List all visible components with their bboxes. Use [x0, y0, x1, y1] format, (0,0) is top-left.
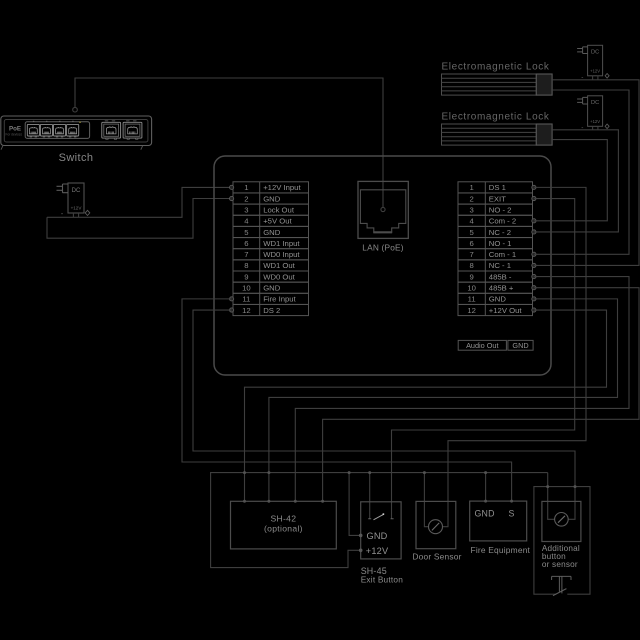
svg-text:S: S: [509, 509, 515, 519]
SH-42 box (optional): [231, 501, 337, 549]
additional sensor box: [542, 501, 581, 541]
svg-text:+12V: +12V: [366, 546, 389, 556]
wire DC+ to pin 2 (GND): [47, 199, 231, 239]
svg-text:Door Sensor: Door Sensor: [412, 551, 461, 561]
svg-text:GND: GND: [475, 509, 495, 519]
svg-text:or sensor: or sensor: [542, 560, 578, 569]
additional button blade: [553, 589, 566, 596]
svg-text:9: 9: [470, 272, 474, 281]
terminal block left (power / wiegand): [233, 182, 309, 316]
switch (PoE ethernet switch): [1, 116, 152, 150]
controller board (main unit): [214, 156, 551, 375]
bus drop to exit button GND: [349, 473, 359, 536]
svg-text:DS 2: DS 2: [263, 306, 280, 315]
svg-text:SH-42: SH-42: [270, 513, 296, 523]
svg-text:+5V Out: +5V Out: [263, 217, 292, 226]
switch uplink port 6: [123, 122, 142, 139]
LAN (PoE) RJ45 jack: [358, 181, 408, 252]
svg-text:Fire Equipment: Fire Equipment: [471, 545, 531, 555]
svg-text:GND: GND: [263, 194, 281, 203]
svg-text:2: 2: [244, 194, 248, 203]
svg-text:WD1 Out: WD1 Out: [263, 261, 295, 270]
switch port 4: [67, 124, 79, 137]
right table pin nodes: [532, 185, 536, 189]
svg-text:GND: GND: [367, 531, 388, 541]
DC adapter (lock 1): [577, 45, 609, 81]
svg-text:7: 7: [244, 250, 248, 259]
blade glint: [383, 513, 385, 514]
svg-text:PoE: PoE: [9, 126, 21, 133]
wire Fire Input (row 11) to fire equipment S: [182, 299, 512, 501]
wire lock1 lower to Com - 1 (row 7): [534, 90, 629, 254]
svg-text:8: 8: [244, 261, 248, 270]
svg-text:DS 1: DS 1: [489, 183, 506, 192]
svg-text:NC - 2: NC - 2: [489, 228, 511, 237]
svg-text:10: 10: [242, 284, 251, 293]
svg-text:485B -: 485B -: [489, 272, 512, 281]
SH-42 terminal dots: [243, 500, 246, 503]
svg-text:WD1 Input: WD1 Input: [263, 239, 300, 248]
svg-text:6: 6: [244, 239, 248, 248]
svg-text:12: 12: [467, 306, 476, 315]
svg-text:Electromagnetic Lock: Electromagnetic Lock: [442, 61, 550, 72]
svg-text:6: 6: [470, 239, 474, 248]
svg-text:5: 5: [470, 228, 474, 237]
svg-text:NC - 1: NC - 1: [489, 261, 511, 270]
wire +12V Out (row 12) to SH-42: [245, 310, 607, 501]
svg-text:11: 11: [242, 295, 250, 304]
svg-text:1: 1: [470, 183, 474, 192]
svg-text:3: 3: [244, 205, 248, 214]
wire DS 1 (row 1) to door sensor: [443, 187, 586, 526]
terminal block right (relays / RS-485): [458, 182, 533, 316]
additional button plunger: [552, 576, 571, 593]
svg-text:+12V Input: +12V Input: [263, 183, 301, 192]
svg-text:WD0 Input: WD0 Input: [263, 250, 300, 259]
svg-text:Com - 2: Com - 2: [489, 217, 516, 226]
bus drop to fire equipment GND: [485, 473, 487, 502]
switch port 2: [40, 124, 52, 137]
svg-text:Com - 1: Com - 1: [489, 250, 516, 259]
svg-text:DC: DC: [591, 50, 599, 56]
wire DC- to pin 1 (+12V Input): [47, 187, 231, 217]
svg-text:NO - 2: NO - 2: [489, 205, 512, 214]
fire equipment terminal dots: [484, 500, 487, 503]
wire DS 2 (row 12) to additional button: [193, 310, 575, 519]
svg-text:For devices: For devices: [6, 133, 23, 137]
bus drop to additional button left: [548, 473, 555, 520]
svg-text:485B +: 485B +: [489, 284, 514, 293]
svg-text:11: 11: [468, 295, 476, 304]
wire GND (row 11) to SH-42: [269, 299, 618, 501]
wire switch to LAN (PoE): [75, 78, 383, 207]
svg-text:GND: GND: [512, 341, 528, 350]
switch uplink port 5: [102, 122, 121, 139]
wire lock2 upper (DC2) to NC - 2 (row 5): [534, 130, 618, 232]
wire EXIT (row 2) to exit button: [392, 199, 575, 519]
svg-text:Switch: Switch: [59, 152, 94, 164]
svg-text:DC: DC: [591, 100, 599, 106]
svg-text:+12V: +12V: [71, 206, 83, 211]
svg-text:Lock Out: Lock Out: [263, 205, 295, 214]
bus drop to exit button switch left: [369, 473, 371, 519]
svg-text:Fire Input: Fire Input: [263, 295, 296, 304]
svg-text:GND: GND: [263, 284, 281, 293]
svg-text:Electromagnetic Lock: Electromagnetic Lock: [442, 111, 550, 122]
additional loop junction dots: [546, 485, 549, 488]
DC adapter (lock 2): [577, 96, 609, 132]
switch port 3: [54, 124, 66, 137]
svg-text:4: 4: [244, 217, 249, 226]
additional button/sensor outer loop: [534, 487, 590, 595]
exit button terminal dots: [359, 534, 363, 538]
exit button switch contacts: [368, 518, 393, 520]
svg-text:WD0 Out: WD0 Out: [263, 272, 295, 281]
svg-text:NO - 1: NO - 1: [489, 239, 512, 248]
svg-text:Audio Out: Audio Out: [466, 341, 498, 350]
SH-45 exit button box: [361, 502, 401, 559]
DC stubs to wire: [73, 213, 78, 217]
svg-text:9: 9: [244, 272, 248, 281]
wire lock1 upper (DC1) to NC - 1 (row 8): [534, 80, 639, 266]
wire 485B - (row 9) to SH-42: [295, 277, 629, 502]
exit button switch blade: [374, 514, 384, 519]
svg-text:Exit Button: Exit Button: [361, 574, 404, 584]
svg-text:1: 1: [244, 183, 248, 192]
svg-text:GND: GND: [263, 228, 281, 237]
connector node above switch: [73, 107, 78, 112]
svg-text:4: 4: [470, 217, 475, 226]
svg-text:3: 3: [470, 205, 474, 214]
svg-text:+12V: +12V: [590, 68, 600, 73]
electromagnetic lock 2 body: [442, 124, 553, 145]
svg-text:EXIT: EXIT: [489, 194, 506, 203]
svg-text:LAN (PoE): LAN (PoE): [362, 243, 403, 253]
svg-text:(optional): (optional): [264, 523, 303, 533]
DC1 stubs: [593, 76, 598, 80]
svg-text:GND: GND: [489, 295, 507, 304]
bus drop to door sensor left: [424, 473, 428, 527]
DC2 stubs: [593, 126, 598, 130]
svg-text:+12V: +12V: [590, 119, 600, 124]
svg-text:12: 12: [242, 306, 251, 315]
svg-text:DC: DC: [72, 188, 81, 194]
bus junction dots: [243, 471, 246, 474]
common bus wire: [211, 473, 548, 568]
electromagnetic lock 1 body: [442, 74, 553, 95]
wire 485B + (row 10) to SH-42: [323, 288, 639, 502]
svg-text:5: 5: [244, 228, 248, 237]
DC adapter (controller +12V): [57, 183, 90, 218]
svg-text:8: 8: [470, 261, 474, 270]
svg-text:7: 7: [470, 250, 474, 259]
Audio Out | GND label: [458, 340, 533, 350]
fire equipment box: [470, 501, 527, 541]
svg-text:10: 10: [467, 284, 476, 293]
door sensor box: [416, 501, 456, 548]
switch port 1: [27, 124, 39, 137]
left table pin nodes: [230, 185, 234, 189]
svg-text:2: 2: [470, 194, 474, 203]
wire lock2 lower to Com - 2 (row 4): [534, 140, 607, 221]
svg-text:+12V Out: +12V Out: [489, 306, 523, 315]
